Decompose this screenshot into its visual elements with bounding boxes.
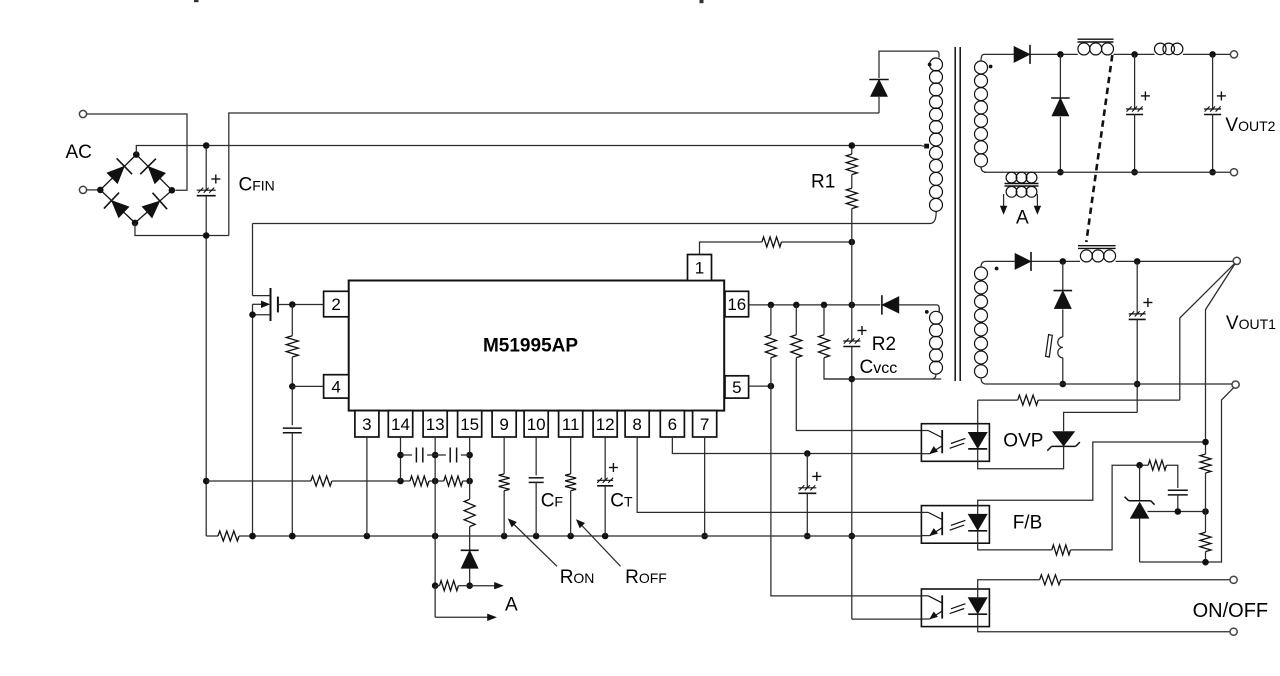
svg-text:11: 11 [562,415,580,434]
svg-text:12: 12 [596,415,615,434]
svg-text:16: 16 [727,295,746,314]
svg-text:F/B: F/B [1013,512,1043,533]
svg-text:CT: CT [610,491,633,512]
svg-text:ON/OFF: ON/OFF [1193,600,1269,622]
svg-text:1: 1 [695,259,704,278]
svg-text:RON: RON [560,567,595,588]
svg-text:VOUT1: VOUT1 [1226,313,1276,334]
svg-text:CFIN: CFIN [239,175,275,196]
svg-text:4: 4 [331,377,340,396]
svg-text:Cvcc: Cvcc [860,357,898,378]
svg-text:6: 6 [668,415,677,434]
svg-text:8: 8 [632,415,641,434]
svg-text:14: 14 [391,415,410,434]
svg-text:7: 7 [700,415,709,434]
svg-text:15: 15 [460,415,479,434]
svg-text:OVP: OVP [1003,431,1043,452]
svg-text:A: A [1016,208,1029,229]
svg-text:M51995AP: M51995AP [483,336,578,357]
svg-text:R2: R2 [872,334,896,355]
svg-text:A: A [505,595,518,616]
svg-text:AC: AC [66,142,92,163]
svg-text:13: 13 [426,415,445,434]
svg-text:2: 2 [331,295,340,314]
svg-text:CF: CF [541,491,563,512]
svg-text:VOUT2: VOUT2 [1225,115,1275,136]
svg-text:5: 5 [732,378,741,397]
svg-text:3: 3 [362,415,371,434]
svg-text:R1: R1 [811,172,835,193]
svg-text:10: 10 [527,415,546,434]
svg-text:9: 9 [499,415,508,434]
svg-text:ROFF: ROFF [625,567,667,588]
